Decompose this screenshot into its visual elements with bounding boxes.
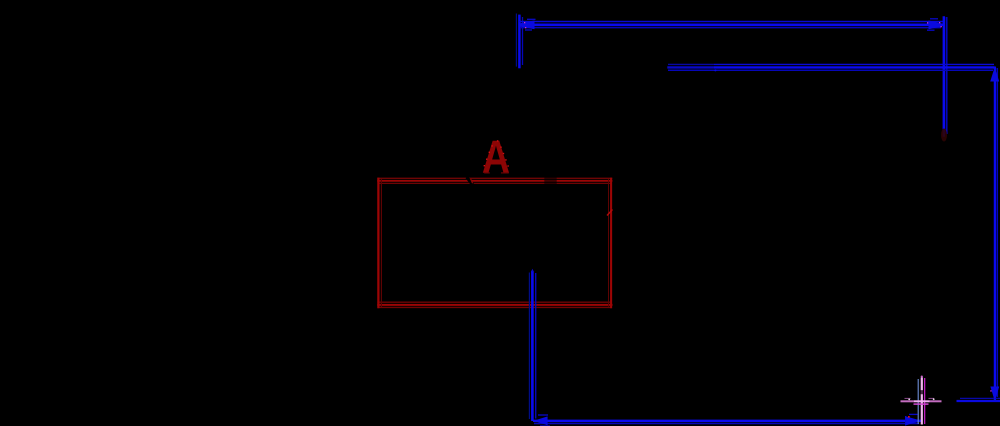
svg-text:A: A xyxy=(482,131,510,183)
